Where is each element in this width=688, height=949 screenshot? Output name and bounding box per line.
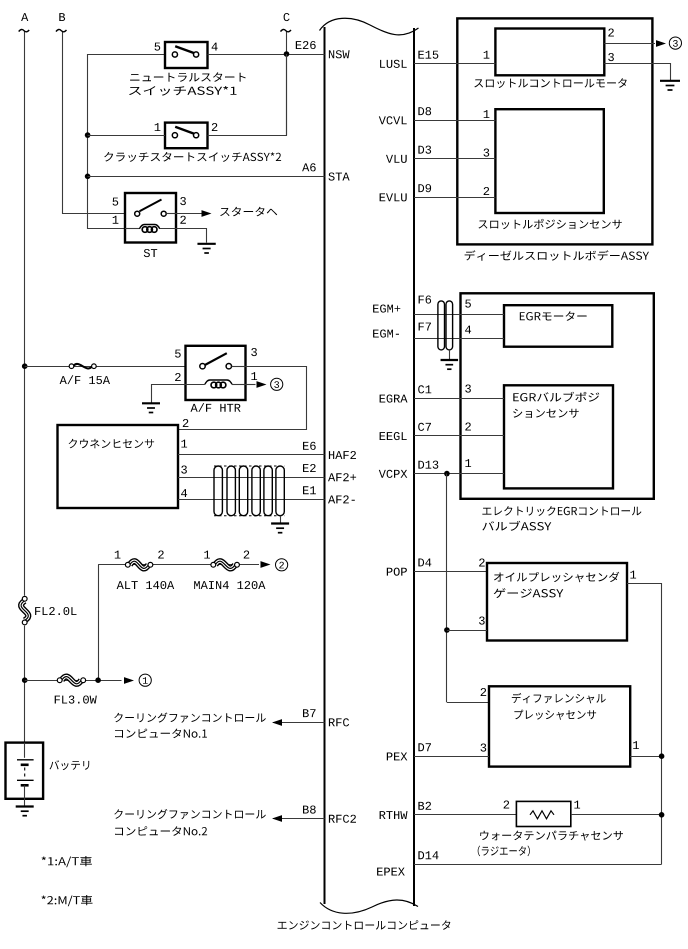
- junction water temp / rail: [659, 812, 665, 818]
- connector circle 3: [271, 378, 283, 390]
- A/F HTR contacts: [200, 364, 205, 369]
- rail A (battery feed): [24, 31, 26, 596]
- wire RTHW to water temp sensor: [414, 814, 516, 816]
- ECU signal POP label: [387, 568, 407, 576]
- clutch start switch S2 box: [165, 123, 208, 149]
- ECU pin D9 label: [418, 184, 431, 192]
- fusible link ALT 140A: [130, 561, 149, 568]
- diesel throttle body outer box: [457, 18, 652, 244]
- caption battery: [50, 760, 90, 770]
- neutral start switch blade: [175, 46, 194, 53]
- wire RFC2 to cooling fan no2: [273, 818, 325, 820]
- caption cooling fan computer no2 line2: [115, 826, 207, 836]
- ECU pin C1 label: [418, 385, 431, 393]
- caption ALT 140A: [117, 581, 175, 589]
- caption cooling fan computer no1 line2: [115, 729, 207, 739]
- pin 2 label: [479, 559, 485, 567]
- ST coil: [125, 228, 139, 230]
- pin 2 label: [175, 373, 181, 381]
- caption A/F HTR: [191, 403, 241, 412]
- junction branch/clutch: [85, 132, 91, 138]
- pin 5 label: [175, 350, 181, 358]
- ECU pin D3 label: [418, 146, 431, 154]
- ECU signal EVLU label: [380, 193, 407, 201]
- junction diff pin1 / rail: [659, 753, 665, 759]
- caption water temp line1: [480, 831, 623, 841]
- wire diff pin1 to right rail: [630, 756, 661, 758]
- wire water temp to rail: [571, 814, 662, 816]
- pin 1 label: [465, 459, 471, 467]
- ECU connector bottom wave: [320, 900, 418, 913]
- battery box: [6, 743, 44, 799]
- wire EGR shield to ground: [449, 350, 451, 359]
- pin 3 label: [180, 197, 186, 205]
- rail B: [63, 31, 126, 214]
- clutch start switch blade: [175, 127, 194, 134]
- ECU signal EPEX label: [377, 868, 405, 876]
- pin 3 label: [481, 744, 487, 752]
- shielded cable for AF sensor: [214, 466, 222, 516]
- ECU signal PEX label: [387, 753, 408, 761]
- wire clutch pin1 from branch: [88, 135, 165, 137]
- connector circle 1: [139, 674, 151, 686]
- junction VCPX: [444, 471, 450, 477]
- caption to starter: [220, 207, 277, 217]
- fusible link FL2.0L: [21, 601, 28, 621]
- pin 1 label: [155, 123, 161, 131]
- ECU signal VLU label: [386, 155, 407, 163]
- ECU signal AF2- label: [328, 495, 355, 503]
- junction rail A / FL3.0W: [22, 677, 28, 683]
- electric EGR control valve outer box: [461, 293, 654, 499]
- wire A to A/F HTR: [25, 366, 186, 368]
- caption air-fuel sensor: [69, 439, 155, 449]
- ECU pin A6 label: [302, 163, 316, 171]
- ECU pin F6 label: [419, 296, 432, 304]
- pin 3 label: [484, 149, 490, 157]
- pin 3 label: [181, 466, 187, 474]
- junction NSW/C: [284, 51, 290, 57]
- wire battery to ground: [24, 799, 26, 806]
- throttle position sensor box: [495, 109, 603, 213]
- neutral start switch contacts: [172, 52, 177, 57]
- wire shield to ground: [280, 516, 282, 523]
- junction FL3.0W / ALT feed: [95, 677, 101, 683]
- wire EVLU to sensor pin2: [414, 197, 495, 199]
- ECU pin E2 label: [303, 464, 316, 472]
- rail C label: [284, 13, 290, 21]
- wire RFC to cooling fan no1: [273, 722, 325, 724]
- ECU signal EGM+ label: [373, 305, 400, 313]
- ECU pin B2 label: [418, 802, 431, 810]
- note *2 M/T: [42, 895, 93, 906]
- pin 1 label: [484, 110, 490, 118]
- pin 2 label: [465, 423, 471, 431]
- wire NSW row from branch to switch: [88, 54, 165, 56]
- wire PEX to diff pin3: [414, 756, 489, 758]
- ground for AF shield: [271, 522, 289, 524]
- wire motor pin2 to circle3: [604, 43, 655, 45]
- ST caption: [144, 249, 157, 257]
- pin 1 label: [115, 551, 121, 559]
- ECU signal LUSL label: [380, 60, 407, 68]
- ECU pin E6 label: [303, 442, 316, 450]
- wire sensor pin3 to ECU E2: [178, 477, 325, 479]
- pin 5 label: [113, 198, 119, 206]
- ECU pin B7 label: [303, 709, 316, 717]
- ECU pin F7 label: [419, 323, 431, 331]
- EGR valve position sensor box: [504, 385, 613, 488]
- clutch start switch contacts: [172, 133, 177, 138]
- neutral start switch S1 box: [165, 42, 208, 68]
- caption EGR valve position line1: [513, 392, 599, 402]
- wire FL3.0W row: [25, 680, 122, 682]
- wire sensor pin4 to ECU E1: [178, 499, 325, 501]
- caption oil pressure line2: [494, 588, 564, 598]
- ECU pin D13 label: [418, 461, 438, 469]
- ECU signal AF2+ label: [328, 473, 356, 481]
- ECU signal EEGL label: [380, 432, 407, 440]
- ground for throttle motor: [660, 80, 680, 82]
- ECU pin E15 label: [418, 51, 438, 59]
- wire A/F HTR pin3 to O2 sensor: [178, 367, 307, 430]
- wire motor pin3 to ground: [604, 64, 670, 81]
- ECU pin D8 label: [418, 107, 431, 115]
- wire NSW row from switch to ECU: [208, 54, 325, 56]
- ECU pin D14 label: [418, 851, 438, 859]
- pin 2 label: [504, 801, 510, 809]
- wire clutch pin2 to rail C: [208, 54, 287, 136]
- wire ALT/MAIN row: [98, 564, 259, 566]
- starter relay ST box: [125, 193, 176, 243]
- pin 1 label: [633, 741, 639, 749]
- air-fuel sensor box: [58, 425, 179, 508]
- wire A/F HTR pin2 to ground: [152, 385, 186, 403]
- pin 3 label: [251, 348, 257, 356]
- connector circle 2: [276, 559, 288, 571]
- pin 3 label: [465, 385, 471, 393]
- pin 4 label: [181, 489, 187, 497]
- ECU pin D4 label: [418, 559, 431, 567]
- pin 2 label: [481, 688, 487, 696]
- wire VCPX branch vertical: [446, 474, 448, 703]
- ground for ST: [197, 243, 215, 245]
- throttle control motor box: [495, 29, 604, 76]
- pin 1 label: [251, 372, 257, 380]
- wire EEGL to sensor pin2: [414, 435, 504, 437]
- wire ST to starter arrow: [176, 213, 204, 215]
- ground for battery: [16, 805, 34, 807]
- caption FL2.0L: [35, 607, 76, 615]
- fuse A/F 15A: [69, 364, 74, 369]
- pin 2 label: [158, 551, 164, 559]
- ECU signal NSW label: [329, 50, 350, 58]
- ECU pin C7 label: [418, 423, 431, 431]
- oil pressure sender gauge box: [487, 563, 627, 641]
- water temp resistor: [530, 811, 554, 819]
- pin 1 label: [181, 440, 187, 448]
- pin 1 label: [204, 551, 210, 559]
- ECU pin B8 label: [303, 806, 316, 814]
- caption oil pressure line1: [494, 572, 619, 582]
- battery symbol: [24, 743, 26, 758]
- pin 1 label: [484, 51, 490, 59]
- wire ST coil to ground: [176, 229, 207, 243]
- ST internal switch wire: [166, 213, 176, 215]
- wire POP to oil pressure pin2: [414, 571, 487, 573]
- pin 2 label: [212, 123, 218, 131]
- rail A label: [21, 13, 28, 21]
- caption electric EGR line2: [482, 521, 551, 531]
- connector circle 3 (top): [669, 37, 681, 49]
- ECU signal EGRA label: [380, 395, 408, 403]
- EGR motor box: [504, 305, 612, 347]
- ground for EGR shield: [441, 359, 459, 361]
- caption FL3.0W: [55, 696, 97, 704]
- wire VCPX to sensor pin1: [414, 473, 504, 475]
- ECU signal HAF2 label: [329, 451, 356, 459]
- shielded cable for EGR motor: [438, 301, 445, 350]
- A/F HTR blade: [205, 353, 227, 365]
- caption A/F 15A: [60, 375, 110, 384]
- caption neutral start switch line2: [129, 86, 237, 96]
- ECU pin E1 label: [303, 486, 316, 494]
- water temp sensor box: [516, 801, 570, 826]
- note *1 A/T: [42, 856, 92, 867]
- pin 1 label: [113, 216, 119, 224]
- ECU signal RFC2 label: [329, 815, 356, 823]
- ECU signal RFC label: [329, 718, 349, 726]
- pin 2 label: [608, 29, 614, 37]
- pin 1 label: [630, 571, 636, 579]
- ECU signal RTHW label: [380, 811, 408, 819]
- pin 3 label: [479, 617, 485, 625]
- wire STA row: [88, 176, 325, 178]
- caption diff pressure line2: [514, 710, 596, 720]
- junction rail A / AF fuse: [22, 363, 28, 369]
- ground for A/F HTR: [142, 402, 160, 404]
- caption electric EGR line1: [482, 506, 641, 516]
- pin 4 label: [465, 326, 471, 334]
- pin 4 label: [212, 43, 218, 51]
- junction oil pin3: [444, 627, 450, 633]
- rail B label: [59, 13, 65, 21]
- ECU pin E26 label: [296, 41, 316, 49]
- wire branch left vertical: [88, 54, 126, 229]
- caption cooling fan computer no2 line1: [114, 809, 265, 819]
- pin 2 label: [484, 187, 490, 195]
- pin 5 label: [465, 300, 471, 308]
- A/F HTR coil: [186, 384, 205, 386]
- ECU connector right line: [413, 28, 415, 906]
- wire vertical ALT feed: [98, 565, 100, 680]
- pin 5 label: [155, 43, 161, 51]
- fusible link MAIN4 120A: [215, 561, 235, 568]
- ECU connector left line: [324, 27, 326, 904]
- caption throttle control motor: [474, 78, 626, 88]
- A/F HTR internal switch wire: [232, 366, 246, 368]
- fusible link FL3.0W: [62, 677, 81, 684]
- wire EGRA to sensor pin3: [414, 398, 504, 400]
- ST blade: [140, 200, 162, 212]
- caption diesel throttle body assy: [465, 250, 649, 260]
- caption diff pressure line1: [512, 693, 606, 704]
- junction branch/STA: [85, 174, 91, 180]
- wire EGM- to EGR motor pin4: [414, 338, 504, 340]
- caption water temp line2: [478, 846, 530, 857]
- ECU connector top wave: [320, 18, 419, 35]
- pin 2 label: [183, 419, 189, 427]
- ECU signal STA label: [329, 173, 350, 181]
- wire VCVL to sensor pin1: [414, 120, 495, 122]
- caption cooling fan computer no1 line1: [114, 713, 265, 723]
- wire oil pin3: [447, 630, 487, 632]
- pin 2 label: [180, 216, 186, 224]
- wire sensor pin1 to ECU E6: [178, 454, 325, 456]
- ECU pin D7 label: [418, 743, 431, 751]
- wire oil pin1 to right rail: [627, 584, 662, 865]
- pin 1 label: [574, 801, 580, 809]
- pin 3 label: [608, 53, 614, 61]
- ST switch contacts: [135, 211, 140, 216]
- wire VLU to sensor pin3: [414, 158, 495, 160]
- wire LUSL to motor pin1: [414, 63, 495, 65]
- ECU signal VCPX label: [379, 470, 408, 478]
- caption MAIN4 120A: [194, 581, 265, 589]
- caption EGR motor: [520, 311, 587, 321]
- A/F HTR relay box: [186, 346, 246, 400]
- caption clutch start switch: [104, 152, 281, 162]
- caption neutral start switch line1: [130, 72, 246, 82]
- pin 2 label: [244, 551, 250, 559]
- differential pressure sensor box: [489, 686, 630, 766]
- wire to diff pressure pin2: [447, 702, 489, 704]
- rail C: [286, 31, 288, 135]
- wire A/F HTR pin1 to circle3: [246, 384, 256, 386]
- caption EGR valve position line2: [513, 409, 579, 418]
- ECU caption: engine control computer: [278, 920, 451, 930]
- ECU signal EGM- label: [373, 330, 399, 338]
- ECU signal VCVL label: [379, 116, 407, 124]
- caption throttle position sensor: [479, 219, 622, 229]
- wire EPEX to rail bottom: [414, 864, 662, 866]
- wire EGM+ to EGR motor pin5: [414, 314, 504, 316]
